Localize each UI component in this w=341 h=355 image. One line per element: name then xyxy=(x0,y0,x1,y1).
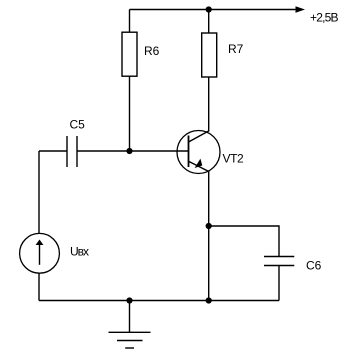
node emitter junction dot xyxy=(206,223,212,229)
capacitor C6 xyxy=(264,257,294,266)
transistor VT2 xyxy=(177,131,220,174)
source U_in xyxy=(20,233,60,273)
power arrow +2,5V xyxy=(296,6,306,12)
wire C6 bottom lead xyxy=(278,266,280,301)
svg-text:C6: C6 xyxy=(306,259,322,273)
wire C5 to base junction xyxy=(77,150,130,152)
wire R6 bottom lead xyxy=(129,76,131,151)
svg-text:R6: R6 xyxy=(144,44,160,58)
svg-text:+2,5В: +2,5В xyxy=(310,11,338,25)
svg-text:C5: C5 xyxy=(70,118,86,132)
node top junction dot xyxy=(206,6,212,12)
wire bottom rail xyxy=(39,300,279,302)
wire R7 bottom lead / collector xyxy=(208,77,210,131)
node base junction dot xyxy=(126,148,132,154)
wire emitter lead xyxy=(208,172,210,301)
resistor R6 xyxy=(122,32,137,76)
capacitor C5 xyxy=(67,136,77,167)
resistor R7 xyxy=(202,33,217,77)
wire R6 top lead xyxy=(129,10,131,33)
svg-text:VT2: VT2 xyxy=(223,152,245,166)
capacitor C5 left lead wire xyxy=(39,150,67,152)
wire R7 top lead xyxy=(208,10,210,34)
node ground junction dot xyxy=(126,297,132,303)
wire emitter to C6 top xyxy=(209,226,279,256)
node emitter-rail junction dot xyxy=(206,297,212,303)
svg-text:Uвх: Uвх xyxy=(70,245,89,259)
wire source top lead xyxy=(38,151,40,234)
wire source bottom lead xyxy=(38,273,40,300)
ground xyxy=(109,301,151,349)
wire top rail xyxy=(130,9,298,11)
svg-text:R7: R7 xyxy=(228,42,244,56)
wire base xyxy=(130,150,189,152)
